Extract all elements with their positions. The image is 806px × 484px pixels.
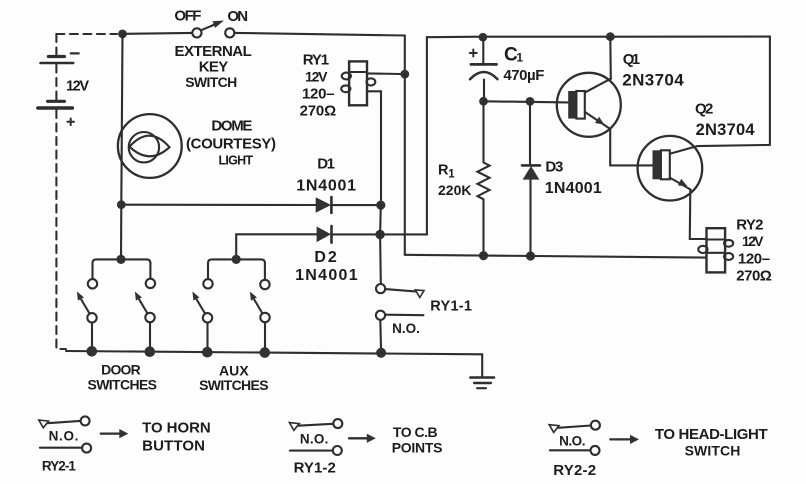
switch door-1 — [77, 263, 97, 351]
diode D2 1N4001 — [317, 226, 332, 243]
svg-text:N.O.: N.O. — [392, 321, 420, 336]
svg-text:RY1-1: RY1-1 — [430, 299, 472, 315]
wire aux switches bracket — [208, 259, 265, 263]
wire D1 cathode to node C — [331, 204, 380, 206]
svg-text:POINTS: POINTS — [392, 440, 443, 456]
svg-text:SWITCH: SWITCH — [685, 443, 741, 459]
wire RY1-1 armature feed from node D — [379, 235, 382, 285]
switch S1 external key switch — [192, 21, 234, 38]
svg-text:DOME: DOME — [211, 117, 252, 134]
resistor R1 220K — [478, 101, 490, 255]
wire node A to key switch — [123, 33, 193, 34]
node A junction top-left — [118, 30, 127, 39]
svg-text:DOOR: DOOR — [101, 362, 141, 378]
node M door-2 junction on rail — [145, 346, 156, 357]
svg-text:D3: D3 — [545, 159, 563, 176]
wire node C to node D vertical — [379, 205, 382, 234]
switch door-2 — [135, 263, 155, 351]
svg-text:1: 1 — [448, 169, 455, 181]
svg-text:12V: 12V — [66, 79, 89, 95]
svg-text:KEY: KEY — [199, 59, 229, 76]
capacitor C1 470uF — [470, 37, 498, 101]
wire bottom rail RY1-node to RY2 coil — [405, 255, 707, 258]
svg-text:RY2-1: RY2-1 — [42, 459, 76, 474]
svg-text:(COURTESY): (COURTESY) — [186, 136, 276, 153]
battery B1 12V — [38, 34, 79, 349]
svg-text:2N3704: 2N3704 — [622, 71, 684, 90]
relay coil RY2 — [698, 228, 733, 272]
svg-text:D1: D1 — [317, 156, 335, 173]
svg-text:RY2-2: RY2-2 — [553, 462, 596, 479]
transistor Q1 2N3704 — [557, 73, 621, 137]
node G junction C1 bottom / Q1 base rail — [479, 97, 488, 106]
svg-text:RY1-2: RY1-2 — [294, 460, 336, 477]
svg-text:RY2: RY2 — [736, 217, 763, 234]
wire battery to node A (dashed) — [56, 33, 117, 35]
arrow RY1-2 — [349, 434, 376, 443]
wire RY1 node down to bottom rail — [404, 74, 406, 255]
relay contact RY1-1 armature — [376, 284, 424, 298]
wire Q2 emitter down to RY2 coil — [690, 189, 707, 239]
svg-text:N.O.: N.O. — [49, 429, 79, 444]
svg-text:Q2: Q2 — [695, 101, 713, 118]
wire node B to diode D1 — [121, 204, 315, 206]
svg-text:1: 1 — [516, 51, 523, 65]
node RY1 top junction — [400, 70, 409, 79]
svg-text:TO C.B: TO C.B — [393, 424, 438, 440]
node L door-1 junction on rail — [87, 346, 98, 357]
svg-text:LIGHT: LIGHT — [219, 154, 254, 168]
svg-text:EXTERNAL: EXTERNAL — [175, 43, 252, 60]
svg-text:1N4001: 1N4001 — [296, 178, 356, 195]
svg-text:470µF: 470µF — [503, 67, 544, 84]
svg-text:2N3704: 2N3704 — [696, 121, 756, 139]
relay coil RY1 — [341, 61, 375, 105]
node H junction D3 top — [526, 97, 535, 106]
wire node G to Q1 base — [484, 101, 569, 102]
node F junction Q1 collector top — [606, 32, 615, 41]
svg-text:12V: 12V — [742, 233, 764, 249]
diode D3 1N4001 — [522, 101, 540, 256]
svg-text:270Ω: 270Ω — [300, 103, 337, 120]
switch aux-1 — [192, 263, 212, 351]
relay contact RY2-2 — [549, 421, 600, 455]
diode D1 1N4001 — [316, 197, 332, 213]
wire door switches bracket — [93, 259, 151, 263]
node C junction D1 cathode — [376, 201, 385, 210]
wire RY1 top terminal to node — [367, 72, 401, 75]
node E junction C1 top — [479, 33, 488, 42]
arrow RY2-2 — [610, 435, 639, 444]
svg-text:N.O.: N.O. — [559, 434, 585, 449]
relay contact RY2-1 — [39, 416, 91, 452]
wire lamp vertical from node A through lamp to door bracket — [121, 34, 123, 260]
svg-text:ON: ON — [227, 8, 248, 25]
wire top rail to right corner down to Q2 collector — [483, 37, 770, 147]
wire node D up-and-over to top rail — [380, 37, 483, 235]
node I junction R1 bottom — [479, 251, 488, 260]
svg-text:120–: 120– — [302, 86, 335, 103]
wire to ground symbol — [481, 354, 483, 376]
lamp DOME courtesy light — [118, 114, 182, 178]
node J junction D3 bottom — [526, 251, 535, 260]
svg-text:TO HORN: TO HORN — [142, 420, 211, 437]
svg-text:Q1: Q1 — [623, 51, 640, 68]
arrow RY2-1 — [101, 429, 129, 438]
relay contact RY1-1 N.O. terminal — [376, 311, 424, 353]
node K junction RY1-1 on ground rail — [376, 348, 386, 358]
svg-text:120–: 120– — [738, 251, 770, 268]
svg-text:1N4001: 1N4001 — [295, 267, 358, 284]
svg-text:TO HEAD-LIGHT: TO HEAD-LIGHT — [655, 426, 768, 443]
svg-text:BUTTON: BUTTON — [142, 438, 205, 455]
wire key switch to corner, down to RY1 node — [234, 33, 404, 74]
relay contact RY1-2 — [289, 419, 342, 455]
wire Q1 collector to node F — [609, 37, 612, 79]
wire ground rail — [66, 351, 482, 354]
svg-text:SWITCH: SWITCH — [185, 74, 237, 90]
svg-text:12V: 12V — [305, 68, 328, 84]
node O aux-2 junction on rail — [260, 347, 271, 358]
svg-text:1N4001: 1N4001 — [545, 180, 602, 197]
transistor Q2 2N3704 — [638, 136, 703, 201]
svg-text:D2: D2 — [314, 249, 336, 266]
svg-text:270Ω: 270Ω — [736, 268, 772, 285]
wire Q1 emitter to Q2 base — [610, 129, 652, 166]
node door bracket centre — [116, 255, 125, 264]
svg-text:RY1: RY1 — [303, 52, 329, 69]
wire aux bracket to diode D2 — [236, 234, 316, 259]
svg-text:SWITCHES: SWITCHES — [199, 377, 269, 393]
ground — [470, 378, 494, 389]
node D junction D2 cathode — [375, 230, 384, 239]
svg-text:220K: 220K — [438, 182, 472, 198]
wire RY1 lower terminal down to diode D1 junction — [367, 91, 381, 200]
wire D2 cathode to node D — [332, 233, 381, 235]
switch aux-2 — [250, 263, 270, 351]
node aux bracket centre — [232, 255, 241, 264]
node B junction at lamp bottom — [117, 200, 126, 209]
svg-text:SWITCHES: SWITCHES — [88, 377, 158, 393]
svg-text:N.O.: N.O. — [300, 432, 329, 447]
node N aux-1 junction on rail — [202, 347, 213, 358]
svg-text:OFF: OFF — [174, 8, 201, 25]
